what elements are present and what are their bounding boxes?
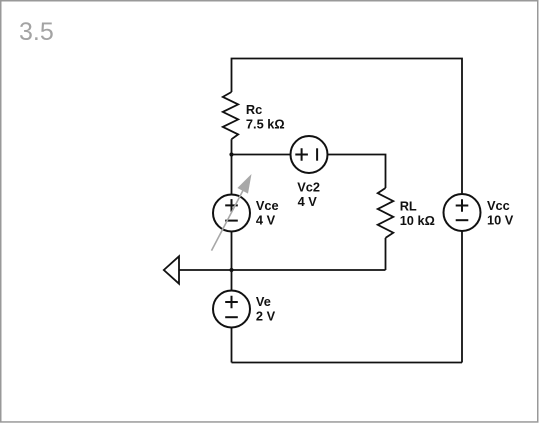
node C junction dot bbox=[229, 152, 233, 156]
svg-text:Vcc: Vcc bbox=[487, 198, 510, 213]
resistor Rc bbox=[223, 92, 238, 139]
svg-text:2 V: 2 V bbox=[256, 308, 276, 323]
wire: Rc bottom to node C bbox=[231, 139, 233, 154]
wire: Vc2 right terminal to RL top bbox=[328, 155, 386, 189]
svg-text:7.5 kΩ: 7.5 kΩ bbox=[246, 117, 285, 132]
svg-text:RL: RL bbox=[400, 199, 417, 214]
svg-text:Rc: Rc bbox=[246, 102, 262, 117]
node E junction dot bbox=[229, 268, 233, 272]
variable-source arrow annotation bbox=[212, 174, 252, 251]
voltage source Vce bbox=[231, 155, 233, 195]
wire: bottom rail bbox=[232, 362, 463, 364]
svg-text:Vc2: Vc2 bbox=[297, 180, 320, 195]
wire: top rail from Rc top to Vcc branch bbox=[232, 59, 463, 195]
svg-text:4 V: 4 V bbox=[298, 194, 318, 209]
voltage source Ve bbox=[231, 270, 233, 291]
voltage source Vc2 bbox=[291, 136, 328, 173]
svg-text:Ve: Ve bbox=[256, 294, 271, 309]
wire: emitter rail from terminal to RL branch bbox=[179, 269, 386, 271]
svg-text:Vce: Vce bbox=[256, 198, 279, 213]
wire: RL bottom to bottom-middle rail bbox=[385, 238, 387, 270]
resistor RL bbox=[378, 188, 394, 238]
svg-text:10 kΩ: 10 kΩ bbox=[400, 213, 435, 228]
voltage source Vcc bbox=[444, 194, 481, 231]
svg-text:10 V: 10 V bbox=[487, 213, 514, 228]
wire: node C to Vc2 left terminal bbox=[232, 154, 291, 156]
input terminal triangle bbox=[164, 256, 179, 283]
svg-text:4 V: 4 V bbox=[256, 213, 276, 228]
svg-text:3.5: 3.5 bbox=[19, 18, 54, 46]
